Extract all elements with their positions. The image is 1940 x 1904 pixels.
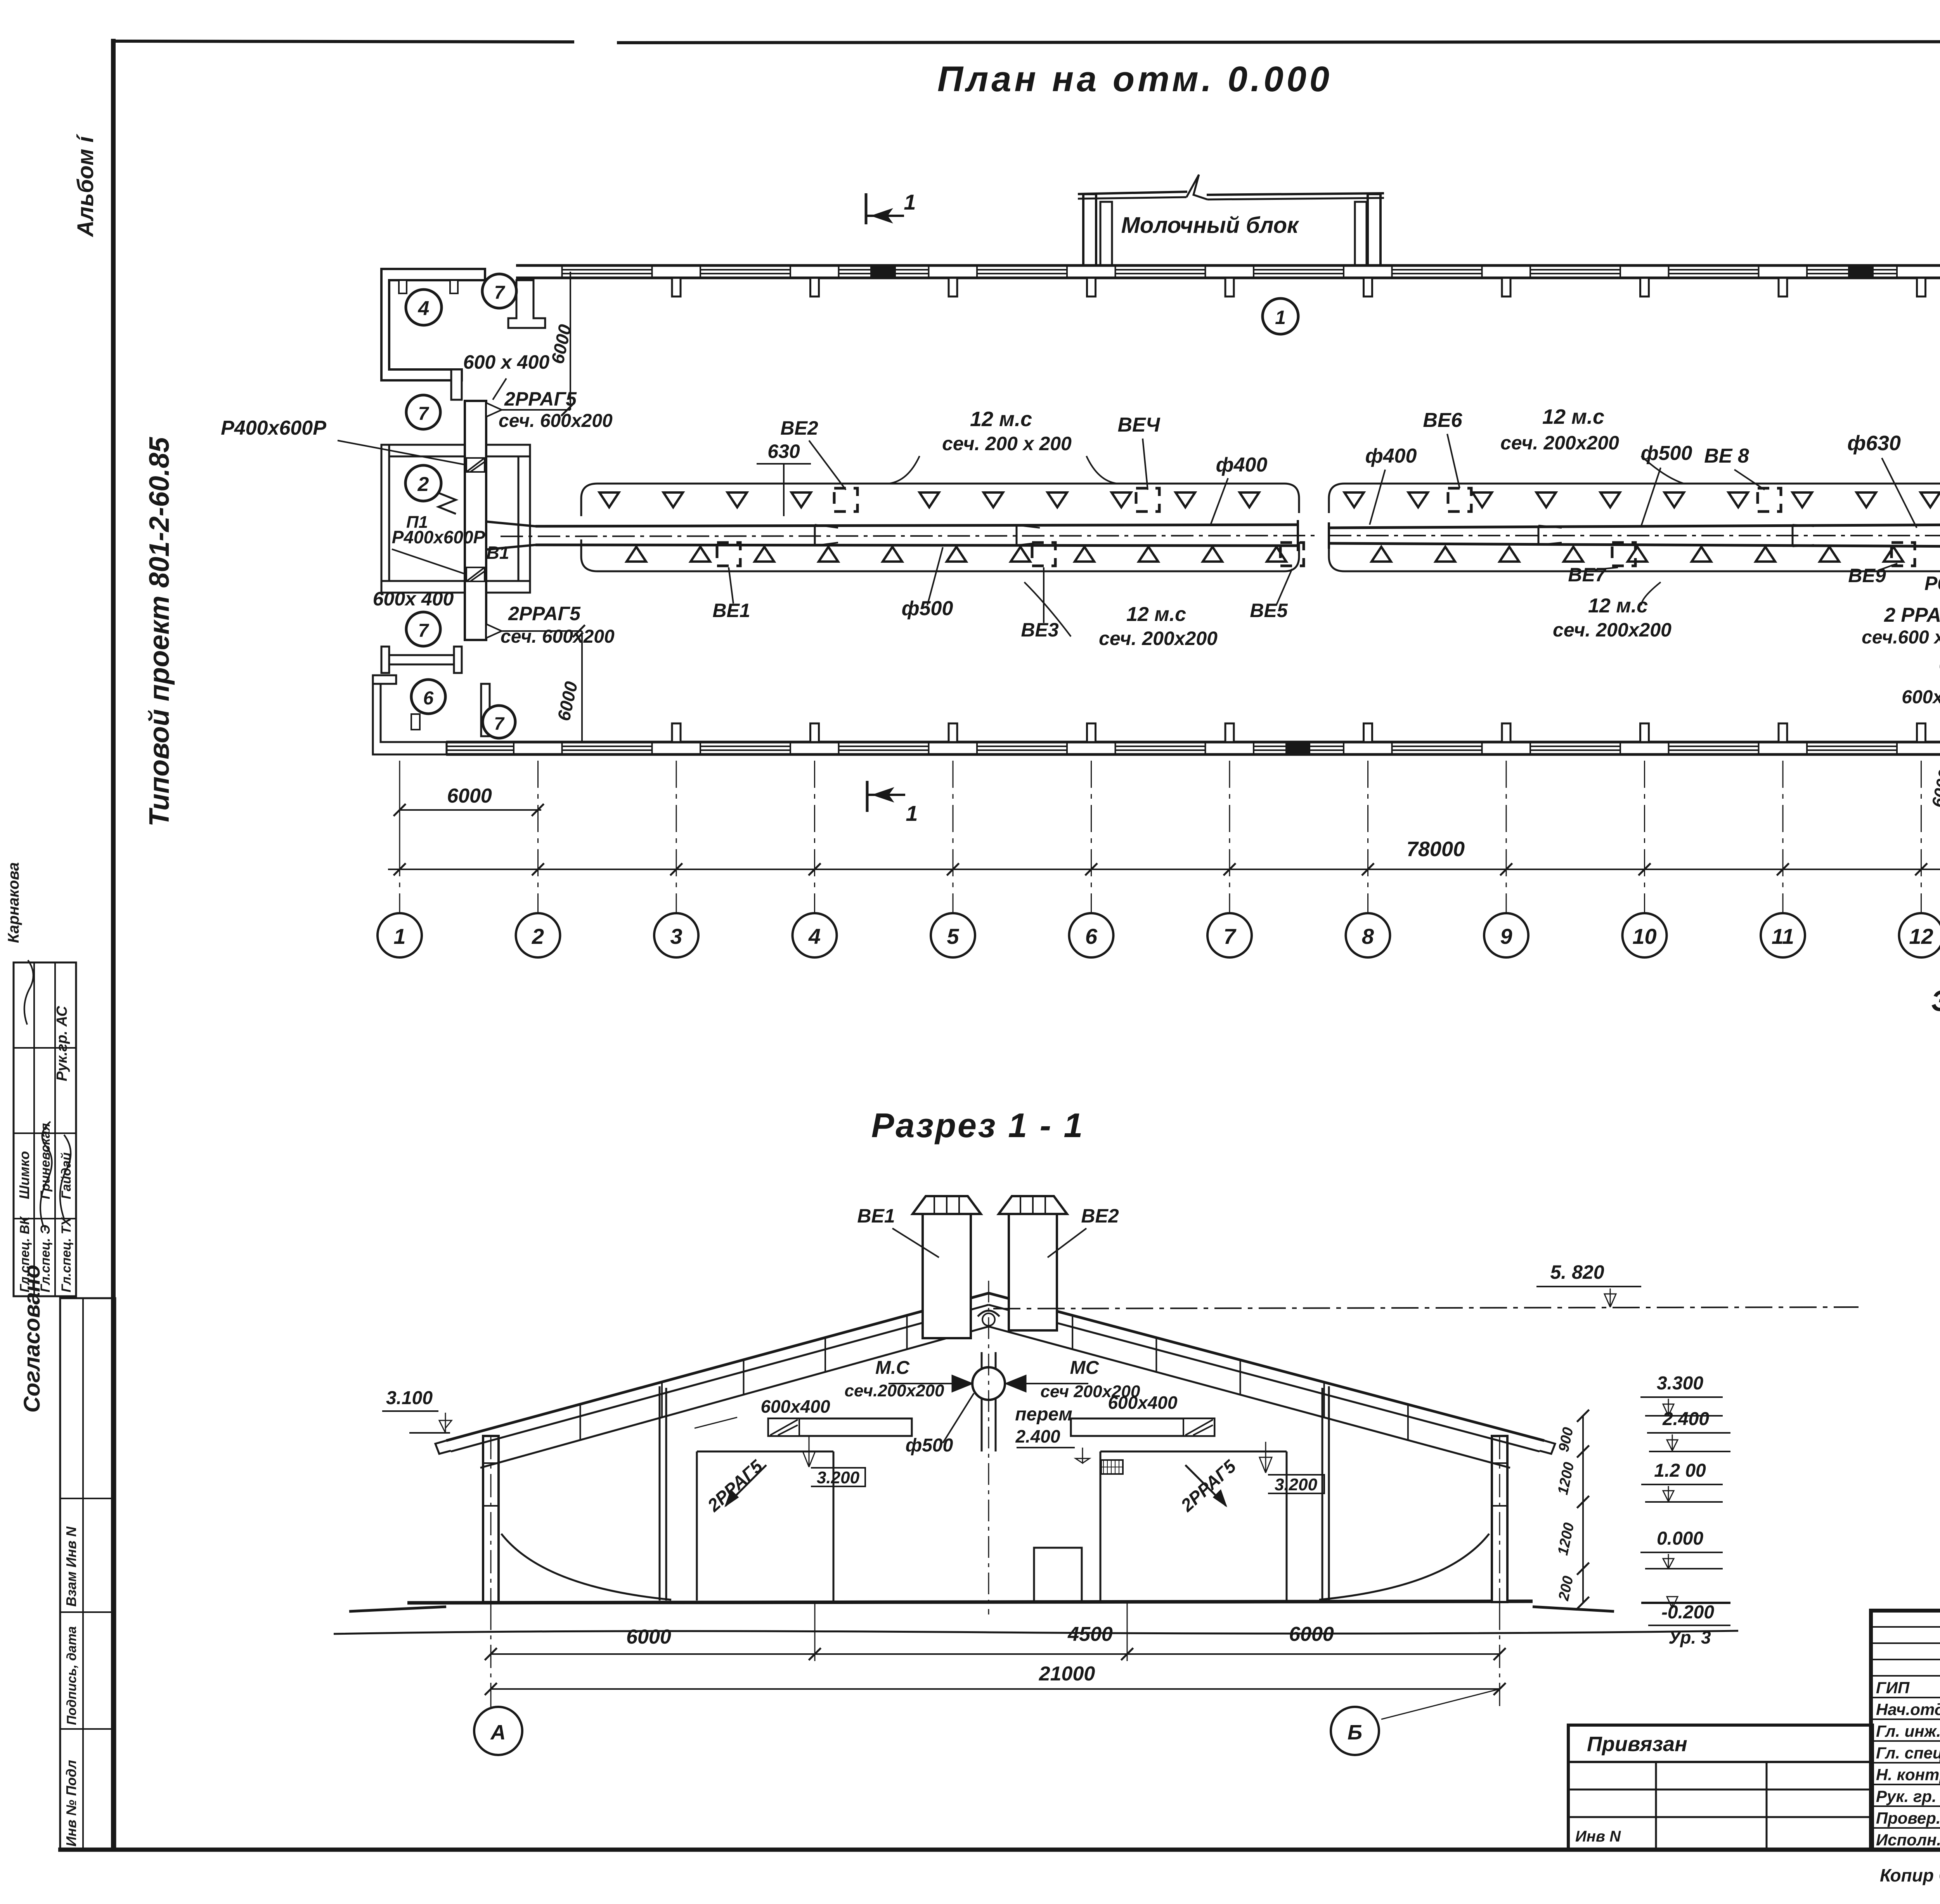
svg-text:ВЕ5: ВЕ5 [1250,600,1288,621]
exhaust ВЕ3 dashed box [1032,543,1055,566]
vent chamber room 2 top wall [381,445,530,456]
vent chamber room 2 left wall [381,445,389,593]
svg-text:6000: 6000 [1289,1623,1334,1646]
grid column centerlines [399,761,400,914]
sheet frame left border [111,39,116,1850]
svg-text:В1: В1 [487,543,509,563]
section left wall [483,1436,499,1602]
circle 7 left lower [406,612,440,646]
section interior post right [1322,1388,1323,1601]
svg-text:Гл. инж.: Гл. инж. [1876,1722,1940,1740]
svg-text:3.200: 3.200 [1275,1475,1318,1494]
svg-text:600 х 400: 600 х 400 [463,351,550,373]
svg-text:ГИП: ГИП [1876,1679,1910,1697]
title block thin top rows [1871,1626,1940,1628]
right duct taper marks [1538,525,1540,545]
svg-text:6: 6 [1085,924,1098,949]
room 6 upper wall piece [381,655,462,664]
section interior right chamber [1100,1451,1287,1601]
section МС arrow right [1006,1375,1026,1392]
svg-text:3.200: 3.200 [817,1468,860,1487]
svg-text:Н. контр.: Н. контр. [1876,1765,1940,1784]
svg-text:ВЕ1: ВЕ1 [712,600,750,621]
svg-text:12 м.с: 12 м.с [970,408,1032,431]
svg-text:Гл.спец. ВК: Гл.спец. ВК [17,1216,32,1292]
section grade line (Ур.З) [334,1631,1738,1634]
svg-text:12 м.с: 12 м.с [1126,603,1186,626]
svg-text:2.400: 2.400 [1015,1426,1060,1446]
title block signature rows [1871,1697,1940,1698]
svg-text:Исполн.: Исполн. [1876,1831,1940,1849]
svg-text:4: 4 [808,924,821,949]
svg-text:Молочный блок: Молочный блок [1121,213,1299,238]
svg-text:ф500: ф500 [1641,442,1692,465]
milk block annex top wall [1078,192,1187,194]
exhaust ВЕ2 dashed box [834,488,857,512]
stall room circle label 1 [1263,298,1298,334]
svg-text:4500: 4500 [1067,1623,1113,1646]
svg-text:-0.200: -0.200 [1661,1602,1714,1623]
roof truss verticals right [1072,1315,1073,1349]
circle 7 left middle [406,395,440,429]
svg-text:МС: МС [1070,1358,1100,1378]
svg-text:5: 5 [947,924,959,949]
section interior left chamber [697,1451,833,1601]
right duct supply diffusers top row [1344,492,1364,507]
section eave right detail [1540,1441,1555,1454]
svg-text:1: 1 [904,190,916,214]
section cut mark bottom [866,781,869,812]
svg-text:Б: Б [1348,1721,1362,1744]
svg-text:А: А [490,1721,506,1744]
svg-text:План на отм. 0.000: План на отм. 0.000 [937,59,1332,99]
section roof left slope [446,1293,989,1441]
svg-text:12 м.с: 12 м.с [1588,595,1648,617]
svg-text:Р630Р: Р630Р [1924,572,1940,594]
svg-text:12: 12 [1909,924,1933,949]
section duct beam right 600x400 [1071,1418,1214,1436]
room 4 inner stub a [399,280,407,293]
vent chamber room 2 right wall [518,456,530,581]
exhaust ВЕ4 dashed box [1136,488,1159,512]
section eave left detail [435,1441,451,1454]
left duct run outline [581,484,1299,516]
privyazan table [1568,1725,1872,1850]
svg-text:сеч.200х200: сеч.200х200 [844,1381,944,1400]
shaft grille upper (Р400х600Р) [466,458,485,472]
tambour wall piece right of room 4 [508,280,545,328]
svg-text:Разрез 1 - 1: Разрез 1 - 1 [871,1106,1084,1144]
svg-text:6000: 6000 [626,1626,671,1648]
room 6 inner stub [411,714,420,730]
room 2 unit symbol [438,493,456,514]
left duct pipe [535,525,1298,526]
plan top exterior wall with windows [516,264,1940,267]
section grid circle А [490,1689,492,1707]
svg-text:Копир Свиренко С.: Копир Свиренко С. [1880,1865,1940,1885]
section roof right slope [989,1293,1544,1441]
grille arrow top 2РРАГ5 [486,403,502,417]
left duct supply diffusers top row [599,492,619,507]
svg-text:9: 9 [1500,924,1512,949]
svg-text:ф500: ф500 [902,597,953,620]
svg-text:Нач.отд.: Нач.отд. [1876,1700,1940,1718]
plan bottom exterior wall with windows [446,741,1940,744]
svg-text:Экспликация помещений: Экспликация помещений [1931,985,1940,1018]
milk block annex break mark [1187,175,1207,199]
svg-text:ф400: ф400 [1365,445,1417,467]
right duct pipe [1329,525,1940,528]
svg-text:Типовой проект 801-2-60.85: Типовой проект 801-2-60.85 [144,437,175,827]
duct end caps at building middle [1297,520,1299,551]
room 6 circle label [411,680,445,714]
top wall joint block 2 [1849,265,1873,278]
left approval table [14,962,76,1296]
svg-text:сеч. 200х200: сеч. 200х200 [1500,432,1619,454]
exhaust ВЕ6 dashed box [1448,488,1471,512]
svg-text:Р400х600Р: Р400х600Р [392,527,485,547]
svg-text:ВЕ6: ВЕ6 [1423,409,1462,432]
left margin handwritten signatures [40,1122,52,1226]
right duct supply diffusers bottom row [1372,547,1391,562]
svg-text:Инв N: Инв N [1575,1828,1621,1845]
section label 3.200 left [811,1468,865,1486]
svg-text:ВЕ1: ВЕ1 [857,1205,895,1227]
svg-text:11: 11 [1772,924,1794,949]
svg-text:Провер.: Провер. [1876,1809,1940,1827]
svg-text:0.000: 0.000 [1657,1528,1703,1549]
svg-text:3: 3 [670,924,682,949]
exhaust ВЕ7 dashed box [1612,543,1635,566]
svg-text:1: 1 [906,801,918,825]
svg-text:Привязан: Привязан [1587,1732,1687,1756]
svg-text:3.300: 3.300 [1657,1373,1703,1394]
svg-text:2 РРАГ5: 2 РРАГ5 [1884,604,1940,626]
svg-text:Рук. гр.: Рук. гр. [1876,1787,1937,1805]
svg-text:Гл.спец. ТХ: Гл.спец. ТХ [59,1217,74,1292]
section wall axis dash lines [490,1436,492,1609]
vertical dimension 6000 left top [570,272,571,410]
milk block annex right wall [1368,194,1381,265]
supply shaft duct (left) [465,401,486,640]
svg-text:ВЕ9: ВЕ9 [1848,565,1886,586]
svg-text:1: 1 [393,924,405,949]
tambour 7 circle top-left [482,274,516,308]
svg-text:Гл. спец.: Гл. спец. [1876,1744,1940,1762]
svg-text:Гл.спец. Э: Гл.спец. Э [38,1225,53,1292]
section right wall [1492,1436,1507,1602]
svg-text:ВЕ3: ВЕ3 [1021,619,1058,641]
sheet frame top border [113,41,574,42]
section chimney ВЕ1 [923,1214,971,1338]
svg-text:перем: перем [1015,1404,1072,1425]
dimension 6000 first bay [400,809,541,811]
svg-text:сеч.600 х700: сеч.600 х700 [1862,627,1940,648]
ridge deflector detail [978,1311,999,1316]
svg-text:Гайдай: Гайдай [59,1152,74,1199]
left inventory strip [60,1298,115,1850]
svg-text:6: 6 [423,688,434,709]
circle 7 bottom-left tambour [483,706,515,738]
svg-text:Альбом í: Альбом í [73,134,98,238]
svg-text:10: 10 [1632,924,1656,949]
svg-text:1: 1 [1275,307,1286,328]
section cut mark top [865,193,868,224]
left duct supply diffusers bottom row [627,547,646,562]
svg-text:2: 2 [417,473,429,496]
svg-text:7: 7 [494,283,506,303]
shaft grille lower (Р400х600Р) [466,567,485,581]
section right small dims 900/1200/1200/200 [1582,1416,1584,1603]
svg-text:сеч. 600х200: сеч. 600х200 [501,626,615,647]
svg-text:Шимко: Шимко [16,1151,32,1199]
svg-text:630: 630 [767,440,800,462]
section duct beam left 600x400 [768,1418,912,1436]
vertical dimension 6000 left bottom [581,631,583,742]
milk block annex left wall [1083,194,1096,265]
grid circles 1-13 [378,913,422,957]
left duct cone from shaft [486,522,535,550]
svg-text:3.100: 3.100 [386,1388,433,1408]
svg-text:ВЕ7: ВЕ7 [1568,564,1606,586]
svg-text:М.С: М.С [875,1358,910,1378]
svg-text:Карнакова: Карнакова [5,862,22,943]
svg-text:21000: 21000 [1039,1663,1095,1685]
milk block annex pier right [1355,202,1367,265]
left duct taper marks [814,525,816,546]
svg-text:сеч. 600х200: сеч. 600х200 [499,411,613,431]
svg-text:78000: 78000 [1406,838,1465,861]
roof truss verticals left [580,1404,581,1440]
section label 3.200 right [1268,1475,1324,1493]
section vent grate symbol [1101,1460,1123,1474]
svg-text:Рук.гр. АС: Рук.гр. АС [54,1006,70,1081]
section ground line [349,1607,446,1611]
svg-text:сеч. 200х200: сеч. 200х200 [1553,619,1672,641]
svg-text:Инв № Подл: Инв № Подл [63,1760,79,1847]
svg-text:2РРАГ5: 2РРАГ5 [508,603,581,624]
section center axis line [988,1281,989,1614]
exhaust ВЕ9 dashed box [1891,543,1915,566]
svg-text:ВЕ2: ВЕ2 [1081,1205,1119,1227]
svg-text:Подпись, дата: Подпись, дата [64,1626,79,1725]
section interior floor curves [501,1534,671,1600]
room 4 walls (top-left) [389,280,485,369]
right duct run outline [1329,484,1940,513]
svg-text:600х400: 600х400 [760,1396,830,1417]
svg-text:7: 7 [418,621,430,641]
vent chamber room 2 bottom wall [381,581,530,593]
svg-text:12 м.с: 12 м.с [1542,405,1604,428]
svg-text:600х 400: 600х 400 [373,588,454,610]
svg-text:ф400: ф400 [1216,454,1268,476]
section dimension line 21000 [491,1688,1500,1690]
title block outer frame [1871,1611,1940,1850]
svg-text:2РРАГ5: 2РРАГ5 [504,388,577,410]
svg-text:6000: 6000 [447,785,492,807]
room 4 inner stub b [450,280,458,293]
exhaust ВЕ5 dashed box [1280,543,1304,566]
svg-text:600х 400(h): 600х 400(h) [1902,687,1940,707]
exhaust ВЕ8 dashed box [1758,488,1781,512]
svg-text:4: 4 [418,297,430,320]
room 6 walls (bottom-left) [373,684,447,754]
main dimension line 78000 [388,869,1940,870]
svg-text:сеч. 200х200: сеч. 200х200 [1099,628,1218,649]
svg-text:8: 8 [1362,924,1374,949]
svg-text:Гриневская: Гриневская [38,1123,53,1199]
svg-text:7: 7 [418,404,430,424]
grille arrow bottom 2РРАГ5 [486,624,502,638]
section ф500 круг duct [972,1367,1005,1400]
section interior post left [659,1386,661,1601]
tambour piece near room 6 [481,684,501,736]
section center shaft [981,1352,983,1451]
section grid circle Б [1381,1689,1500,1719]
section bottom dimension line [491,1653,1500,1655]
svg-text:2.400: 2.400 [1662,1409,1709,1429]
section chimney ВЕ2 [1009,1214,1057,1330]
svg-text:1.2 00: 1.2 00 [1654,1460,1706,1481]
svg-text:2: 2 [532,924,544,949]
svg-text:ВЕЧ: ВЕЧ [1117,414,1160,436]
sheet frame bottom border [58,1848,1940,1852]
room 2 circle label [405,465,441,501]
room 4 circle label [406,290,442,325]
svg-text:600х400: 600х400 [1108,1392,1177,1413]
section center door [1034,1548,1082,1601]
svg-text:7: 7 [494,713,505,734]
svg-text:ВЕ2: ВЕ2 [780,417,818,439]
room 4 door-side wall piece [451,369,462,400]
section МС arrow left [952,1375,972,1392]
svg-text:Р400х600Р: Р400х600Р [221,417,326,439]
exhaust ВЕ1 dashed box [717,543,740,566]
svg-text:Взам Инв N: Взам Инв N [63,1526,79,1607]
svg-text:ф630: ф630 [1847,432,1901,455]
bottom wall joint block [1286,742,1309,754]
svg-text:7: 7 [1223,924,1237,949]
milk block annex pier left [1100,202,1112,265]
svg-text:5. 820: 5. 820 [1550,1261,1604,1283]
top wall joint block [871,265,895,278]
svg-text:сеч. 200 х 200: сеч. 200 х 200 [942,433,1072,454]
svg-text:ВЕ 8: ВЕ 8 [1704,445,1749,467]
